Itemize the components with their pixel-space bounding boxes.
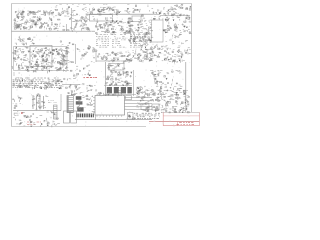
parts xyxy=(107,78,109,80)
component row in module xyxy=(42,64,44,66)
title block table xyxy=(162,111,200,113)
component cluster xyxy=(76,20,79,22)
component cluster below bus left xyxy=(22,38,24,40)
text row xyxy=(148,90,150,92)
wire xyxy=(13,110,61,112)
component row under table xyxy=(99,53,100,54)
stubs above IC xyxy=(108,93,110,95)
IC U5 xyxy=(107,87,112,93)
faint scan noise dots xyxy=(52,58,55,61)
text xyxy=(150,70,152,72)
wire xyxy=(12,30,96,32)
sparse parts xyxy=(20,97,23,99)
connector pin row P2 xyxy=(77,114,78,118)
wire xyxy=(104,93,136,95)
component row xyxy=(137,58,139,59)
label text row xyxy=(18,10,20,12)
component cluster: power supply dense block xyxy=(62,60,64,62)
wire xyxy=(66,24,68,31)
wire xyxy=(125,97,153,99)
wire xyxy=(95,115,97,120)
sparse parts mid-left xyxy=(89,70,90,72)
parts inside regulator xyxy=(96,19,98,21)
wire xyxy=(105,62,107,96)
component cluster xyxy=(140,44,142,46)
wire xyxy=(75,119,152,121)
transformer T2 core xyxy=(77,107,83,111)
sparse parts xyxy=(79,50,81,52)
component cluster xyxy=(117,9,119,11)
shield box / tuner TU1 xyxy=(152,20,164,42)
component cluster xyxy=(76,14,77,15)
component cluster xyxy=(149,27,151,28)
relay RY1 xyxy=(132,16,141,22)
tiny top text xyxy=(59,4,62,6)
component cluster xyxy=(174,29,176,31)
IC U7 xyxy=(121,87,126,93)
red net label (warning text) xyxy=(84,77,85,79)
capacitor C101 xyxy=(64,111,70,123)
dark dot in B9 xyxy=(129,116,131,118)
wire xyxy=(95,49,97,62)
IC U1 pins xyxy=(96,94,98,96)
box B9 xyxy=(128,113,134,120)
parts list text columns xyxy=(96,34,98,36)
schematic notes text xyxy=(134,112,135,114)
wire xyxy=(71,8,73,30)
relay RY3 xyxy=(152,104,159,110)
IC U6 xyxy=(114,87,119,93)
wire xyxy=(96,60,131,62)
connector J3 xyxy=(54,105,58,119)
text xyxy=(48,100,49,102)
transformer T1 box xyxy=(30,46,52,67)
box small U4 xyxy=(109,64,125,71)
small text xyxy=(13,72,15,74)
capacitor C102 xyxy=(71,111,77,123)
parts xyxy=(108,66,110,68)
buffer U9 xyxy=(126,96,132,100)
wire xyxy=(60,94,62,111)
component cluster: top small parts xyxy=(59,15,60,17)
IC U8 xyxy=(127,87,131,93)
component row upper-right xyxy=(186,49,188,51)
wire xyxy=(125,106,153,108)
wire xyxy=(160,14,190,16)
transistor Q10 heatsink xyxy=(76,96,82,100)
component cluster: input stage resistors/capacitors xyxy=(43,11,45,13)
dense text/component rows xyxy=(16,77,18,79)
wire xyxy=(125,100,153,102)
component row bottom-left xyxy=(46,125,48,127)
relay RY2 xyxy=(141,104,149,110)
title block red text xyxy=(179,122,182,124)
red label bottom-left xyxy=(27,121,29,123)
red junction dot xyxy=(21,112,22,113)
sparse parts xyxy=(66,79,68,81)
component cluster above regulator xyxy=(99,14,101,15)
wire xyxy=(75,44,77,64)
component row xyxy=(184,90,186,91)
parts xyxy=(128,116,130,118)
parts right of connector xyxy=(77,107,78,108)
sparse parts xyxy=(67,44,69,46)
wire xyxy=(86,13,160,15)
wire xyxy=(125,109,153,111)
sparse parts xyxy=(87,90,89,92)
transistor Q11 heatsink xyxy=(76,101,83,104)
connector J1 xyxy=(67,96,73,113)
component cluster dense center-top xyxy=(112,32,114,33)
parts above tuner xyxy=(153,12,155,14)
parts xyxy=(164,76,166,78)
IC U1 microcontroller xyxy=(95,96,125,116)
parts between xyxy=(124,81,125,82)
component cluster right-top xyxy=(168,17,170,19)
wire xyxy=(104,85,132,87)
wire xyxy=(125,103,153,105)
transformer T3 windings xyxy=(32,95,34,109)
wire xyxy=(133,70,135,96)
wire xyxy=(185,62,187,112)
voltage regulator module U3 xyxy=(90,15,113,22)
component cluster bottom-left xyxy=(37,102,38,103)
power module outline xyxy=(14,46,68,48)
wire xyxy=(62,84,80,86)
dense cluster bottom-right xyxy=(142,99,144,101)
component cluster xyxy=(153,11,154,13)
